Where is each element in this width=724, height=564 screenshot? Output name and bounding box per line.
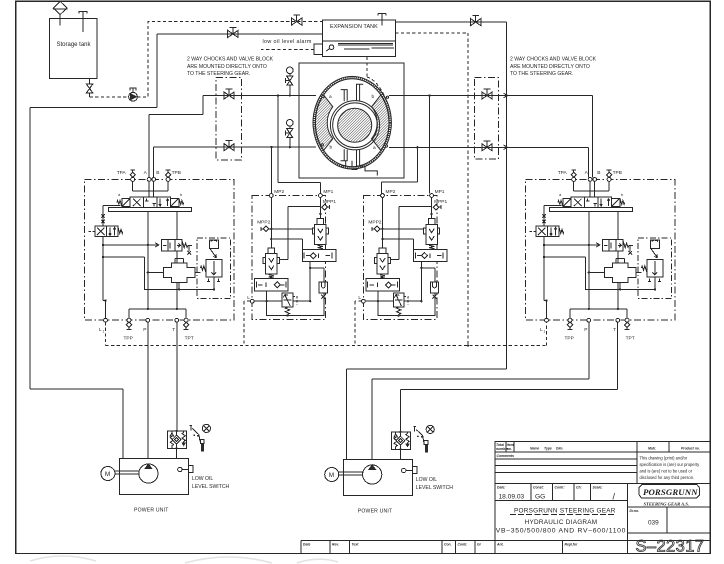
hand pump: [129, 88, 138, 101]
pilot line MP2 to upper bus manifold 1: [271, 239, 302, 250]
svg-text:TPT: TPT: [185, 336, 194, 342]
svg-text:T: T: [613, 327, 616, 333]
top port bracket block right: [574, 181, 609, 197]
title block small labels: [303, 443, 700, 547]
steering gear vanes bottom: [341, 149, 364, 166]
pilot line MP1 to lower check valve manifold 1: [280, 207, 321, 260]
storage tank: [50, 19, 97, 79]
test point TPT block right: [625, 318, 635, 342]
node A block right: [585, 170, 592, 181]
drain relief to L block right: [544, 257, 620, 289]
drain from upper check bus manifold 2: [420, 262, 422, 302]
inline check module block left: [161, 240, 192, 255]
power unit 1 tank: [120, 459, 189, 495]
svg-text:Comments: Comments: [497, 454, 515, 458]
return pipe expansion tank to power unit 1 tank: [30, 34, 323, 459]
pipe B left: steering gear to left valve block: [154, 147, 316, 177]
node T block right: [613, 318, 619, 333]
relief valve manifold 2: [393, 293, 408, 315]
svg-text:MPP1: MPP1: [323, 199, 336, 205]
svg-text:LEVEL SWITCH: LEVEL SWITCH: [192, 484, 229, 490]
svg-text:Product no.: Product no.: [681, 447, 700, 451]
svg-text:TPT: TPT: [626, 336, 635, 342]
valve subplate block left: [109, 208, 192, 212]
svg-text:HYDRAULIC DIAGRAM: HYDRAULIC DIAGRAM: [525, 519, 598, 526]
pipe T right block to filter 2: [401, 322, 618, 433]
note text left: [187, 57, 274, 78]
pilot-operated check valve upper (MP1 side) manifold 2: [424, 219, 440, 250]
shuttle connections block right: [589, 271, 605, 273]
wire T inside block left: [176, 212, 178, 309]
svg-text:LOW OIL: LOW OIL: [416, 477, 437, 483]
svg-text:Text: Text: [352, 543, 360, 547]
bottom drain line manifold 2: [378, 293, 435, 316]
svg-text:a: a: [373, 146, 376, 151]
svg-text:M: M: [105, 471, 110, 478]
test point MPP1 manifold 1: [322, 199, 336, 210]
valve on expansion return line left: [228, 27, 238, 37]
pressure switch power unit 2: [413, 426, 428, 452]
test point TPP block right: [565, 318, 574, 342]
svg-text:TPB: TPB: [613, 170, 622, 176]
relief valve assembly (dash-dot boundary) block right: [638, 238, 672, 298]
svg-text:ARE MOUNTED DIRECTLY ONTO: ARE MOUNTED DIRECTLY ONTO: [187, 64, 267, 70]
pipe MP2 to manifold 2: [381, 147, 417, 193]
relief valve manifold 1: [282, 293, 297, 315]
node L1 block right: [540, 318, 548, 333]
svg-text:LEVEL SWITCH: LEVEL SWITCH: [416, 485, 453, 491]
test point TPB block right: [607, 170, 622, 182]
orifice/plug box manifold 2: [430, 282, 438, 299]
dashed drain manifold 2 L: [355, 301, 361, 345]
svg-text:TPP: TPP: [565, 336, 574, 342]
electric motor M power unit 2: [325, 468, 339, 482]
svg-text:MPP1: MPP1: [434, 199, 447, 205]
relief valve block right: [641, 240, 663, 282]
test point TPA block left: [117, 170, 136, 182]
svg-text:Matr.: Matr.: [648, 447, 656, 451]
steering gear stator wedge left: [315, 95, 332, 150]
expansion tank: [323, 20, 396, 41]
dashed drain bus: [106, 322, 547, 346]
pilot-operated check valve lower (MP2 side) manifold 1: [263, 248, 279, 279]
motor shaft power unit 2: [339, 472, 363, 475]
low oil level switch label power unit 2: [416, 477, 453, 491]
svg-text:Con.: Con.: [444, 543, 452, 547]
chock valve right lower: [482, 141, 492, 151]
check valve bus box upper manifold 1: [302, 250, 336, 262]
title underline dashes: [510, 513, 616, 515]
title block: [301, 442, 710, 554]
svg-text:ARE MOUNTED DIRECTLY ONTO: ARE MOUNTED DIRECTLY ONTO: [510, 64, 590, 70]
float switch chamber (low oil level alarm): [314, 41, 395, 57]
svg-text:MPP2: MPP2: [257, 220, 270, 226]
drain from lower check bus manifold 1: [266, 291, 268, 301]
pilot line MPP2 to upper check valve manifold 1: [269, 228, 312, 230]
solenoid a block right: [558, 193, 571, 206]
drain line L manifold 1: [254, 300, 282, 302]
svg-text:MP2: MP2: [274, 189, 284, 195]
directional control valve block left: [130, 197, 170, 207]
motor shaft power unit 1: [115, 471, 139, 474]
drain line L manifold 2: [365, 300, 393, 302]
top port bracket block left: [133, 181, 168, 197]
rim port dots: [322, 95, 324, 97]
svg-text:Const:: Const:: [533, 485, 544, 489]
shutoff valve under storage tank: [86, 79, 92, 97]
svg-text:LOW OIL: LOW OIL: [192, 476, 213, 482]
svg-text:S–22317: S–22317: [636, 538, 705, 556]
orifice/plug box manifold 1: [319, 282, 327, 299]
bottom port bus block left: [129, 309, 186, 320]
svg-text:B: B: [156, 170, 159, 176]
svg-text:039: 039: [648, 520, 659, 527]
faint scan watermark arcs: [30, 556, 338, 563]
branch to orifice manifold 1: [310, 268, 324, 282]
dashed alarm signal stub left: [261, 49, 314, 51]
steering gear rotor rings: [330, 101, 379, 150]
shuttle block block right: [604, 258, 636, 282]
wire P inside block left: [147, 212, 149, 309]
svg-text:Type: Type: [544, 447, 552, 451]
wire P inside block right: [588, 212, 590, 309]
pipe B right: steering gear to right valve block: [389, 147, 589, 177]
expansion tank breather: [378, 14, 386, 26]
svg-text:P: P: [584, 327, 587, 333]
steering gear rotary actuator: hatched rim: [313, 76, 391, 175]
svg-text:Rev.: Rev.: [332, 543, 339, 547]
pump power unit 2: [363, 465, 382, 484]
dashed alarm line to right side: [395, 33, 468, 346]
pipe P left block to pump 1: [147, 322, 149, 464]
filter on storage tank: [53, 2, 68, 26]
title block entries: [496, 492, 659, 535]
test point MPP2 manifold 1: [257, 220, 270, 232]
valve subplate block right: [550, 208, 633, 212]
pipe A left: steering gear to left valve block: [149, 96, 316, 178]
solenoid a block left: [117, 193, 130, 206]
chock valve left lower: [224, 141, 234, 151]
svg-text:EXPANSION TANK: EXPANSION TANK: [330, 24, 378, 30]
drain line to L block right: [544, 206, 562, 321]
node A block left: [144, 170, 151, 181]
svg-text:b: b: [621, 193, 623, 197]
pipe P right block to pump 2: [372, 322, 589, 465]
svg-text:L: L: [247, 295, 250, 301]
svg-text:This drawing (print) and/or: This drawing (print) and/or: [640, 455, 688, 460]
svg-text:TO THE STEERING GEAR.: TO THE STEERING GEAR.: [510, 71, 573, 77]
pilot line MP2 to upper bus manifold 2: [383, 239, 414, 250]
pressure gauge with shutoff valve 2: [285, 120, 293, 149]
pilot line MPP2 to upper check valve manifold 2: [380, 228, 423, 230]
wire MP1 down manifold 2: [431, 197, 433, 218]
svg-text:2 WAY CHOCKS AND VALVE BLOCK: 2 WAY CHOCKS AND VALVE BLOCK: [510, 57, 597, 63]
valve block left boundary (dash-dot): [85, 179, 234, 320]
svg-text:VB–350/500/800 AND RV–600/1100: VB–350/500/800 AND RV–600/1100: [496, 527, 626, 534]
electric motor M power unit 1: [101, 467, 115, 481]
directional control valve block right: [571, 197, 611, 207]
return pipe expansion tank to power unit 2 tank: [347, 22, 507, 460]
svg-text:b: b: [330, 145, 333, 151]
branch to orifice manifold 2: [421, 268, 435, 282]
svg-text:TPB: TPB: [172, 170, 181, 176]
svg-text:Dim.: Dim.: [556, 447, 563, 451]
svg-text:b: b: [180, 193, 182, 197]
svg-text:MP1: MP1: [323, 189, 333, 195]
test point MPP1 manifold 2: [433, 199, 447, 210]
power unit 2 tank: [343, 460, 412, 496]
signal lamp power unit 1: [202, 424, 210, 432]
pressure switch power unit 1: [190, 425, 205, 451]
pilot-operated check valve lower (MP2 side) manifold 2: [374, 248, 390, 279]
2-way chock valve block left (dash-dot boundary): [216, 77, 241, 160]
svg-text:TPA: TPA: [558, 170, 568, 176]
svg-text:L: L: [358, 295, 361, 301]
steering gear housing box: [299, 63, 404, 178]
pipe A right: steering gear to right valve block: [389, 96, 593, 178]
check valve bus box lower manifold 2: [366, 279, 400, 291]
svg-text:b: b: [372, 94, 375, 100]
solenoid b block left: [171, 193, 184, 206]
auxiliary 2/2 solenoid valve block right: [530, 226, 564, 236]
svg-text:Date: Date: [303, 543, 310, 547]
manifold 2 boundary (dash-dot): [363, 196, 436, 320]
wire MP1 down manifold 1: [319, 197, 321, 218]
node MP1 manifold 2: [430, 194, 434, 198]
node L manifold 1: [250, 299, 254, 303]
pump power unit 1: [139, 464, 158, 483]
bottom drain line manifold 1: [267, 293, 324, 316]
svg-text:1: 1: [544, 330, 546, 334]
internal drain stubs under rotor: [342, 161, 378, 176]
relief valve assembly (dash-dot boundary) block left: [197, 238, 231, 298]
node P block left: [143, 318, 149, 333]
check valve bus box lower manifold 1: [255, 279, 289, 291]
svg-text:MPP2: MPP2: [368, 220, 381, 226]
dashed expansion drain into steering gear: [367, 57, 386, 98]
filter to tank stub power unit 1: [176, 448, 178, 458]
wire MP2 down manifold 1: [270, 197, 272, 248]
pipe MP2 to manifold 1: [271, 147, 273, 193]
svg-text:POWER UNIT: POWER UNIT: [134, 508, 169, 514]
steering gear vanes top: [341, 84, 364, 101]
node B block right: [593, 170, 601, 181]
filter to tank stub power unit 2: [399, 449, 401, 459]
dashed suction line storage tank to hand pump: [90, 96, 129, 98]
check valve bus box upper manifold 2: [414, 250, 448, 262]
wire T inside block right: [617, 212, 619, 309]
svg-text:GG: GG: [535, 494, 545, 501]
node MP2 manifold 1: [269, 194, 273, 198]
low oil level switch power unit 1: [178, 466, 193, 473]
svg-text:specification is (are) our pro: specification is (are) our property: [640, 462, 701, 467]
feed line with check module block left: [103, 243, 159, 247]
test point TPP block left: [124, 318, 133, 342]
breather marks block left: [101, 214, 104, 217]
svg-text:Contr.: Contr.: [458, 543, 468, 547]
node T block left: [172, 318, 178, 333]
auxiliary 2/2 solenoid valve block left: [89, 226, 123, 236]
svg-text:Scale:: Scale:: [593, 485, 603, 489]
solenoid b block right: [612, 193, 625, 206]
low oil level switch label power unit 1: [192, 476, 229, 490]
shuttle block block left: [163, 258, 195, 282]
dashed drain manifold 1 L: [244, 301, 250, 345]
pilot-operated check valve upper (MP1 side) manifold 1: [312, 219, 328, 250]
svg-text:1: 1: [103, 330, 105, 334]
svg-text:T: T: [172, 327, 175, 333]
shuttle connections block left: [148, 271, 164, 273]
svg-text:B: B: [597, 170, 600, 176]
valve block right boundary (dash-dot): [526, 179, 675, 320]
svg-text:and is (are) not to be used or: and is (are) not to be used or: [640, 468, 693, 473]
pipe MP1 to manifold 2: [429, 96, 431, 194]
svg-text:PORSGRUNN: PORSGRUNN: [643, 487, 698, 497]
test point TPT block left: [184, 318, 194, 342]
proprietary note: [640, 455, 701, 480]
svg-text:Dr.no.: Dr.no.: [630, 509, 640, 513]
wire MP2 down manifold 2: [382, 197, 384, 248]
svg-text:Date:: Date:: [497, 485, 505, 489]
svg-text:low oil level alarm: low oil level alarm: [263, 39, 312, 45]
svg-text:PORSGRUNN STEERING GEAR: PORSGRUNN STEERING GEAR: [514, 508, 616, 515]
drain from lower check bus manifold 2: [377, 291, 379, 301]
svg-text:Repl.for: Repl.for: [565, 543, 578, 547]
svg-text:Ant.: Ant.: [496, 543, 504, 547]
svg-text:a: a: [329, 95, 332, 100]
svg-text:Storage tank: Storage tank: [57, 42, 92, 48]
svg-text:M: M: [329, 472, 334, 479]
relief valve block left: [200, 240, 222, 282]
signal lamp power unit 2: [426, 425, 434, 433]
svg-text:Contr:: Contr:: [555, 485, 565, 489]
svg-text:2 WAY CHOCKS AND VALVE BLOCK: 2 WAY CHOCKS AND VALVE BLOCK: [187, 57, 274, 63]
chock valve left upper: [224, 89, 234, 99]
node L1 block left: [99, 318, 107, 333]
node P block right: [584, 318, 590, 333]
node B block left: [152, 170, 160, 181]
test point TPA block right: [558, 170, 577, 182]
svg-text:POWER UNIT: POWER UNIT: [358, 509, 393, 515]
PORSGRUNN logo: [639, 485, 699, 507]
note text right: [510, 57, 597, 78]
svg-text:Gr: Gr: [477, 543, 482, 547]
svg-text:Name: Name: [530, 447, 539, 451]
low oil level switch power unit 2: [402, 467, 417, 474]
steering gear shaft (hatched): [338, 108, 372, 142]
svg-text:STEERING GEAR A.S.: STEERING GEAR A.S.: [644, 501, 690, 506]
breather on storage tank: [79, 11, 87, 32]
connection arrows at crossing of return line: [504, 93, 508, 149]
valve on dashed filling line: [292, 15, 302, 25]
steering gear stator wedge right: [372, 95, 389, 150]
drain relief to L block left: [103, 257, 179, 289]
test point MPP2 manifold 2: [368, 220, 381, 232]
drain from upper check bus manifold 1: [309, 262, 311, 302]
svg-text:disclosed for any third person: disclosed for any third person.: [640, 475, 695, 480]
svg-text:Ch:: Ch:: [576, 485, 582, 489]
valve on expansion return line right: [471, 16, 481, 26]
feed line with check module block right: [544, 243, 600, 247]
pilot line MP1 to lower check valve manifold 2: [391, 207, 432, 260]
test point TPB block left: [166, 170, 181, 182]
svg-text:no.: no.: [507, 447, 512, 451]
return filter assembly power unit 1: [168, 430, 187, 450]
svg-text:TPA: TPA: [117, 170, 127, 176]
svg-text:TO THE STEERING GEAR.: TO THE STEERING GEAR.: [187, 71, 250, 77]
breather marks block right: [542, 214, 545, 217]
svg-text:MP2: MP2: [386, 189, 396, 195]
node MP1 manifold 1: [319, 194, 323, 198]
svg-text:TPP: TPP: [124, 336, 133, 342]
node MP2 manifold 2: [381, 194, 385, 198]
bottom port bus block right: [570, 309, 627, 320]
dashed line hand pump to expansion tank: [137, 22, 322, 97]
pressure gauge with shutoff valve 1: [285, 67, 293, 97]
pipe T left block to filter 1: [176, 322, 178, 432]
manifold 1 boundary (dash-dot): [252, 196, 325, 320]
svg-text:18.09.03: 18.09.03: [499, 494, 525, 501]
svg-text:P: P: [143, 327, 146, 333]
chamber labels a/b: [329, 94, 376, 151]
inline check module block right: [602, 240, 633, 255]
drain line to L block left: [103, 206, 121, 321]
2-way chock valve block right (dash-dot boundary): [474, 77, 498, 159]
chock valve right upper: [482, 89, 492, 99]
return filter assembly power unit 2: [391, 431, 410, 451]
pipe MP1 to manifold 1: [278, 96, 321, 194]
svg-text:MP1: MP1: [435, 189, 445, 195]
node L manifold 2: [362, 299, 366, 303]
